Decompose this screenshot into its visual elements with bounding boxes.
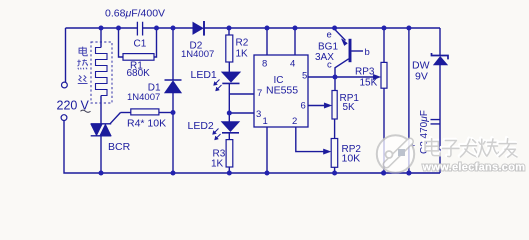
svg-text:7: 7 [257, 88, 262, 99]
wire RP3 to bottom rail [383, 88, 385, 173]
transistor BG1 [342, 39, 352, 62]
LED1 arrows [214, 80, 222, 92]
svg-text:R2: R2 [236, 38, 249, 49]
svg-text:1: 1 [263, 116, 268, 127]
wire pin 5 to RP3 wiper [308, 76, 374, 78]
wire pin 1 [266, 127, 268, 173]
terminal circle upper 220V [62, 82, 68, 88]
svg-text:1N4007: 1N4007 [181, 49, 214, 60]
op-amp IC NE555 box [254, 55, 308, 127]
svg-text:9V: 9V [415, 71, 428, 83]
LED1 [222, 72, 241, 84]
wire top rail left segment [66, 27, 138, 29]
char shao [478, 138, 499, 157]
capacitor C2 plates [431, 120, 440, 124]
watermark text www.elecfans.com [422, 161, 526, 173]
wire transistor emitter [335, 28, 346, 41]
wire pin 2 to RP2 wiper [296, 127, 324, 152]
wire triac gate diagonal [110, 113, 121, 124]
wire pin 6 to RP1 wiper [308, 105, 324, 107]
char zi [441, 139, 458, 156]
node dots top rail [99, 26, 412, 31]
svg-text:BCR: BCR [108, 141, 131, 153]
wire pin 7 [229, 93, 254, 95]
node dot R4 D1 junction [171, 110, 176, 115]
svg-text:10K: 10K [342, 153, 361, 165]
node dot C2 bottom over watermark [406, 171, 411, 176]
svg-text:5K: 5K [343, 102, 356, 113]
node dot pin3 LED2 junction [227, 111, 232, 116]
svg-text:www.elecfans.com: www.elecfans.com [422, 161, 526, 173]
RP2 wiper arrow [323, 149, 330, 154]
resistor R4 [131, 109, 159, 115]
wire triac to bottom rail [100, 136, 102, 173]
svg-text:6: 6 [301, 101, 306, 112]
potentiometer RP1 [332, 91, 337, 120]
resistor R1 [123, 54, 154, 61]
svg-text:1N4007: 1N4007 [127, 92, 160, 103]
svg-text:1K: 1K [236, 49, 249, 60]
svg-text:NE555: NE555 [266, 85, 298, 97]
svg-text:e: e [327, 30, 332, 41]
svg-text:0.68μF/400V: 0.68μF/400V [105, 7, 165, 19]
heating element dashed box [91, 42, 112, 103]
LED2 arrows [213, 129, 221, 141]
wire pin 8 [266, 28, 268, 55]
wire R4 to D1 node [159, 112, 173, 114]
char dian [424, 138, 440, 156]
zener diode DW [432, 53, 449, 65]
wire transistor base [351, 50, 363, 52]
wire RP2 to bottom rail [334, 167, 336, 173]
svg-text:RP3: RP3 [355, 67, 375, 78]
wire gate to R4 [121, 112, 131, 114]
wire right edge zener bottom [439, 65, 441, 174]
wire LED2 anode [228, 113, 230, 122]
svg-text:4: 4 [290, 59, 295, 70]
svg-text:2: 2 [292, 116, 297, 127]
capacitor C1 plates [137, 22, 142, 36]
node dots bottom rail [99, 171, 412, 176]
potentiometer RP2 [331, 139, 338, 168]
svg-text:15K: 15K [360, 78, 378, 89]
RP1 wiper arrow [324, 103, 331, 108]
diode D2 [193, 21, 204, 36]
svg-text:R4* 10K: R4* 10K [127, 118, 166, 130]
svg-text:1K: 1K [211, 159, 224, 170]
watermark logo circle [377, 135, 414, 172]
char you [498, 138, 517, 158]
svg-text:5: 5 [302, 71, 307, 82]
svg-text:LED1: LED1 [191, 69, 217, 81]
wire LED1 to pin7 junction [228, 84, 230, 113]
node dot RP3 bottom over watermark [381, 171, 386, 176]
node dot pin5 collector junction [333, 75, 338, 80]
resistor R2 [226, 35, 233, 62]
heating element meander [96, 48, 108, 96]
wire R2 branch top [228, 28, 230, 35]
RP3 wiper arrow [373, 74, 380, 79]
svg-text:BG1: BG1 [318, 42, 338, 53]
wire R3 to bottom rail [228, 167, 230, 173]
wire top rail mid segment [143, 27, 193, 29]
svg-text:b: b [365, 47, 370, 58]
char fa [459, 138, 477, 157]
svg-text:LED2: LED2 [188, 120, 214, 132]
wire D1 to bottom [172, 93, 174, 173]
wire C2 branch [408, 28, 410, 173]
wire bottom rail over watermark [370, 172, 440, 174]
terminal circle lower 220V [61, 115, 67, 121]
wire transistor collector [335, 59, 349, 91]
wire pin 3 [229, 112, 254, 114]
wire RP3 branch top [383, 28, 385, 62]
wire top rail right segment [205, 27, 441, 29]
svg-text:3AX: 3AX [315, 52, 334, 63]
wire pin 4 [294, 28, 296, 55]
potentiometer RP3 [381, 62, 387, 88]
wire C1R1 left drop [119, 28, 124, 57]
wire heater to triac [100, 96, 102, 124]
wire RP1 to RP2 [334, 119, 336, 139]
wire D1 branch [172, 28, 174, 80]
label heating wire (dian re si) vertical [77, 47, 87, 84]
wire left input lower [64, 121, 440, 173]
svg-text:680K: 680K [127, 68, 151, 79]
triac BCR [91, 124, 112, 136]
watermark text dianzi fashaoyou [424, 138, 517, 158]
wire LED2 to R3 [228, 133, 230, 140]
resistor R3 [226, 140, 233, 167]
svg-text:220: 220 [57, 99, 78, 113]
wire left input upper [65, 28, 67, 82]
LED2 [221, 122, 239, 133]
wire R2 to LED1 [228, 62, 230, 72]
wire heater branch top [100, 28, 102, 48]
svg-text:3: 3 [256, 109, 261, 120]
wire right edge zener top [439, 28, 441, 55]
diode D1 [165, 80, 182, 93]
wire C1R1 right drop [154, 28, 157, 57]
svg-text:8: 8 [262, 59, 267, 70]
svg-text:C1: C1 [134, 39, 147, 50]
